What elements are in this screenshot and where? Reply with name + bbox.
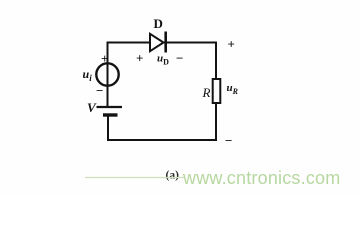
- svg-text:(a): (a): [166, 170, 180, 182]
- resistor R body: [213, 79, 221, 103]
- wire right vertical (resistor branch): [215, 42, 217, 142]
- svg-text:R: R: [202, 85, 211, 100]
- wire below battery: [107, 116, 109, 142]
- diode D cathode bar: [164, 32, 167, 53]
- svg-text:+: +: [228, 37, 235, 52]
- svg-text:ui: ui: [83, 67, 93, 83]
- svg-text:uD: uD: [157, 53, 169, 67]
- svg-text:D: D: [154, 16, 163, 31]
- watermark underline: [85, 177, 185, 179]
- battery V top plate: [97, 106, 123, 108]
- svg-text:−: −: [176, 51, 183, 66]
- wire bottom return: [107, 139, 217, 141]
- svg-text:+: +: [136, 51, 143, 66]
- wire left vertical (source branch): [107, 42, 109, 108]
- svg-text:www.cntronics.com: www.cntronics.com: [182, 168, 340, 188]
- battery V bottom plate: [103, 113, 118, 116]
- svg-text:uR: uR: [227, 82, 239, 96]
- svg-text:V: V: [87, 100, 97, 115]
- svg-text:+: +: [101, 51, 108, 66]
- wire top (node between source and diode to resistor top): [108, 42, 217, 44]
- svg-text:−: −: [225, 133, 232, 148]
- diode D triangle: [150, 34, 164, 51]
- ac source ui circle: [96, 63, 118, 85]
- svg-text:−: −: [96, 83, 103, 98]
